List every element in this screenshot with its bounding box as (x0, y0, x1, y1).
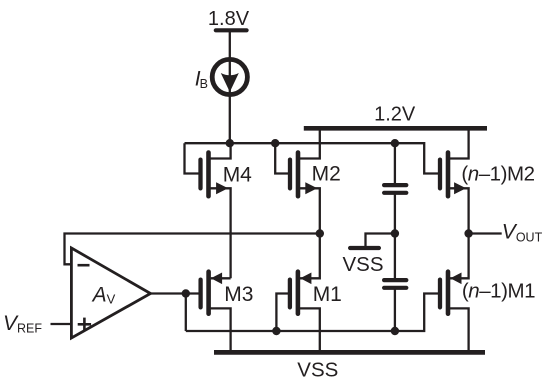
transistor (n-1)M1 (440, 234, 469, 353)
wire VOUT (469, 232, 502, 234)
svg-text:(n–1)M1: (n–1)M1 (462, 280, 535, 303)
op-amp plus sign (78, 318, 91, 331)
node dot cap mid / VSS branch (391, 229, 399, 237)
svg-text:1.2V: 1.2V (374, 104, 416, 126)
svg-text:M2: M2 (312, 163, 341, 186)
op-amp U1 (71, 248, 150, 338)
svg-text:M3: M3 (224, 283, 253, 306)
wire bias line (M4 drain/gate to M2 gate and (n-1)M2 gate) (185, 143, 441, 173)
svg-text:VSS: VSS (343, 253, 384, 276)
node 1.8V supply bar (216, 28, 247, 32)
node dot op-amp output (182, 289, 190, 297)
ground VSS bottom rail (214, 350, 485, 355)
svg-text:VOUT: VOUT (502, 221, 543, 245)
wire op-amp output to M3 gate (151, 292, 201, 294)
capacitor C1 (384, 143, 406, 233)
node dot M2/M1 drain junction (316, 229, 324, 237)
svg-text:AV: AV (91, 284, 116, 307)
node dot cap2 on gate bus (391, 327, 399, 335)
node 1.2V rail (304, 126, 487, 131)
node dot bias at current source (226, 139, 234, 147)
transistor M3 (201, 272, 231, 353)
node dot VOUT junction (464, 229, 472, 237)
transistor M2 (290, 127, 320, 234)
wire M2 gate branch (275, 143, 290, 173)
current source IB circle (212, 59, 247, 94)
wire feedback from output node to op-amp inverting input (65, 234, 320, 265)
op-amp minus sign (78, 264, 90, 267)
svg-text:M1: M1 (313, 283, 342, 306)
wire VREF to op-amp plus input (51, 323, 72, 325)
svg-text:VREF: VREF (3, 312, 42, 335)
wire 1.8V bar down through current source to bias node (229, 30, 231, 143)
wire VSS branch (366, 234, 395, 247)
svg-text:(n–1)M2: (n–1)M2 (461, 162, 534, 185)
svg-text:M4: M4 (223, 164, 252, 187)
transistor (n-1)M2 (440, 127, 469, 234)
svg-text:VSS: VSS (297, 358, 338, 381)
wire M1 gate branch (276, 294, 290, 332)
wire M4 gate loop (185, 143, 201, 173)
svg-text:1.8V: 1.8V (208, 8, 250, 30)
capacitor C2 (384, 234, 406, 332)
node dot cap1 top / (n-1)M2 gate branch (391, 139, 399, 147)
wire op-amp output down to gate bus (185, 294, 187, 332)
svg-text:IB: IB (195, 68, 208, 91)
node dot M1 gate branch (272, 327, 280, 335)
current source IB arrow (221, 73, 239, 92)
node dot M2 gate branch (271, 139, 279, 147)
transistor M4 (201, 143, 231, 278)
ground VSS symbol bar (350, 246, 379, 250)
wire gate bus to (n-1)M1 gate (186, 294, 440, 332)
transistor M1 (290, 234, 320, 353)
